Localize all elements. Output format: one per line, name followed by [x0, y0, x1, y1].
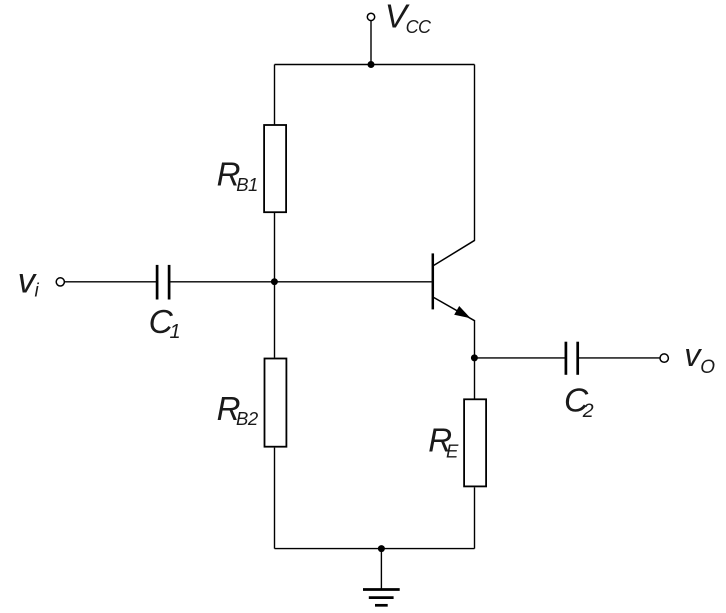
wire collector drop from top rail — [474, 65, 476, 241]
resistor RE — [464, 399, 486, 486]
wire C2 to output terminal — [579, 357, 660, 359]
label C1 — [149, 304, 181, 343]
emitter lead — [434, 298, 475, 321]
label RB2 — [217, 390, 259, 429]
svg-text:B1: B1 — [236, 174, 258, 195]
label C2 — [564, 383, 594, 422]
wire input terminal to C1 — [65, 281, 156, 283]
svg-text:CC: CC — [406, 17, 432, 37]
wire emitter down to node E — [474, 320, 476, 399]
wire top rail to RB1 — [274, 65, 276, 125]
transistor bar — [432, 253, 435, 309]
wire Vcc stub — [370, 20, 372, 64]
terminal Vcc — [367, 13, 374, 20]
label vo — [684, 337, 715, 378]
wire node E to C2 — [475, 357, 567, 359]
node E junction dot — [471, 354, 478, 361]
label RB1 — [217, 155, 258, 195]
emitter arrow — [454, 306, 470, 318]
wire bottom rail — [275, 548, 475, 550]
svg-text:2: 2 — [582, 400, 594, 422]
resistor RB1 — [264, 125, 286, 212]
wire RE to bottom rail — [474, 487, 476, 548]
transistor Q1 — [433, 240, 475, 321]
wire RB2 to bottom rail — [274, 448, 276, 549]
node A junction dot (base / divider) — [271, 278, 278, 285]
svg-text:O: O — [700, 357, 715, 378]
ground — [363, 590, 400, 606]
terminal vi — [56, 278, 64, 286]
node G junction dot — [378, 545, 385, 552]
node Vcc junction dot — [368, 61, 375, 68]
capacitor C2 — [566, 342, 578, 375]
capacitor C1 — [157, 265, 169, 300]
wire top rail — [275, 64, 475, 66]
wire RB1 to node A — [274, 213, 276, 358]
terminal vo — [660, 354, 668, 362]
label vi — [18, 262, 40, 302]
label Vcc — [385, 0, 432, 37]
resistor RB2 — [265, 359, 287, 447]
collector lead — [434, 240, 475, 265]
svg-text:1: 1 — [170, 321, 181, 343]
wire ground stub — [380, 549, 382, 590]
label RE — [428, 421, 459, 461]
svg-text:B2: B2 — [236, 408, 259, 429]
svg-text:E: E — [446, 440, 459, 461]
wire C1 to base (through node A) — [170, 281, 431, 283]
